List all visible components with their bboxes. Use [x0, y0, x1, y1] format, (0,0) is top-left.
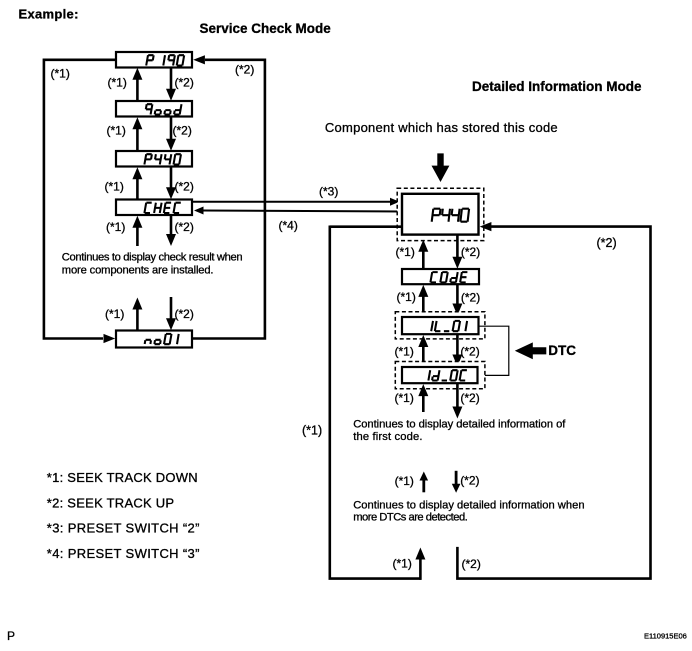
- arrow up below IdDC (*1): [422, 395, 425, 412]
- wire DTC bracket: [477, 326, 509, 375]
- svg-text:(*2): (*2): [460, 391, 479, 405]
- arrow up bottom-left (*1): [419, 559, 422, 580]
- svg-text:Example:: Example:: [19, 6, 79, 21]
- svg-text:the first code.: the first code.: [353, 431, 422, 443]
- arrow up IL01-IdDC (*1): [422, 346, 425, 367]
- arrow up P440-COdE (*1): [422, 251, 425, 269]
- svg-text:(*3): (*3): [319, 185, 338, 199]
- block arrow down: [432, 153, 450, 182]
- arrow up middle free (*1): [422, 480, 425, 493]
- arrow down below CHEC (*2): [170, 215, 173, 235]
- arrow up good-P440 (*1): [136, 128, 139, 151]
- svg-text:*2: SEEK TRACK UP: *2: SEEK TRACK UP: [47, 495, 175, 510]
- wire big box bottom-right: [457, 227, 650, 579]
- svg-text:(*2): (*2): [461, 245, 480, 259]
- svg-text:(*2): (*2): [175, 220, 194, 234]
- arrow down below IdDC (*2): [456, 383, 459, 407]
- svg-text:*3: PRESET SWITCH “2”: *3: PRESET SWITCH “2”: [47, 521, 200, 536]
- svg-text:(*1): (*1): [51, 67, 70, 81]
- arrow up COdE-IL01 (*1): [422, 296, 425, 312]
- svg-text:(*1): (*1): [395, 345, 414, 359]
- svg-text:Component which has stored thi: Component which has stored this code: [325, 120, 558, 135]
- svg-text:Detailed Information Mode: Detailed Information Mode: [472, 79, 642, 94]
- wire left loop (*1): [44, 60, 116, 339]
- svg-text:(*2): (*2): [175, 307, 194, 321]
- svg-text:Continues to display check res: Continues to display check result when: [62, 252, 243, 264]
- display box no01: [116, 331, 192, 348]
- dashed box around IL_01: [395, 312, 485, 339]
- arrowhead right loop into P190: [193, 55, 205, 64]
- svg-text:(*1): (*1): [396, 245, 415, 259]
- arrowhead big box into P440 right: [480, 222, 492, 231]
- svg-text:*1: SEEK TRACK DOWN: *1: SEEK TRACK DOWN: [47, 470, 198, 485]
- lcd text no01: [145, 334, 179, 344]
- svg-text:(*1): (*1): [395, 474, 414, 488]
- svg-text:(*2): (*2): [175, 179, 194, 193]
- display box Id_DC: [402, 367, 478, 383]
- svg-text:E110915E06: E110915E06: [644, 632, 687, 641]
- svg-text:Service Check Mode: Service Check Mode: [200, 21, 332, 36]
- svg-text:(*2): (*2): [460, 474, 479, 488]
- arrow down COdE-IL01 (*2): [456, 284, 459, 304]
- wire *4 P440 to CHEC: [202, 210, 402, 213]
- svg-text:Continues to display detailed: Continues to display detailed informatio…: [353, 499, 584, 511]
- arrow down good-P440 (*2): [170, 117, 173, 140]
- svg-text:(*4): (*4): [279, 219, 298, 233]
- display box IL_01: [402, 317, 479, 334]
- svg-text:Continues to display detailed: Continues to display detailed informatio…: [353, 419, 566, 431]
- svg-text:(*1): (*1): [105, 307, 124, 321]
- lcd text IL_01: [431, 321, 467, 331]
- lcd text P440 left: [144, 154, 181, 164]
- wire *3 CHEC to P440: [192, 201, 391, 203]
- lcd text COdE: [430, 272, 467, 282]
- svg-text:(*1): (*1): [393, 557, 412, 571]
- svg-text:(*2): (*2): [175, 75, 194, 89]
- arrow up P440-CHEC (*1): [136, 178, 139, 199]
- svg-text:(*2): (*2): [235, 63, 254, 77]
- svg-text:(*1): (*1): [302, 424, 322, 438]
- svg-text:(*1): (*1): [108, 75, 127, 89]
- arrow down P190-good (*2): [170, 68, 173, 90]
- svg-text:more components are installed.: more components are installed.: [62, 264, 214, 276]
- svg-text:more DTCs are detected.: more DTCs are detected.: [353, 512, 467, 524]
- arrowhead left loop into no01: [104, 334, 116, 343]
- dashed box around Id_DC: [395, 362, 485, 389]
- svg-text:(*1): (*1): [395, 391, 414, 405]
- svg-text:*4: PRESET SWITCH “3”: *4: PRESET SWITCH “3”: [47, 546, 200, 561]
- lcd text good: [146, 104, 182, 114]
- svg-text:DTC: DTC: [548, 343, 576, 358]
- arrow up below CHEC (*1): [136, 227, 139, 246]
- lcd text P440 right: [432, 209, 469, 222]
- display box CHEC: [116, 200, 192, 216]
- display box COdE: [402, 269, 479, 284]
- lcd text CHEC: [144, 203, 180, 213]
- svg-text:(*1): (*1): [107, 123, 126, 137]
- arrow up P190-good (*1): [136, 79, 139, 101]
- lcd text Id_DC: [428, 370, 467, 380]
- svg-text:(*1): (*1): [105, 179, 124, 193]
- svg-text:(*2): (*2): [173, 123, 192, 137]
- arrow down P440-CHEC (*2): [170, 167, 173, 189]
- display box P440 right: [402, 194, 479, 235]
- svg-text:(*2): (*2): [597, 236, 617, 250]
- svg-text:(*1): (*1): [397, 290, 416, 304]
- svg-text:P: P: [7, 629, 15, 643]
- arrow up above no01 (*1): [136, 309, 139, 331]
- arrow down above no01 (*2): [170, 297, 173, 319]
- dashed box around P440: [397, 188, 484, 240]
- wire big box outline: [330, 226, 422, 579]
- arrow down middle free (*2): [455, 471, 458, 485]
- display box P190: [116, 52, 192, 68]
- display box good: [116, 101, 192, 117]
- svg-text:(*2): (*2): [462, 557, 481, 571]
- arrow down IL01-IdDC (*2): [456, 334, 459, 355]
- lcd text P190: [146, 55, 184, 65]
- wire right loop (*2): [192, 60, 265, 339]
- arrow down P440-COdE (*2): [456, 235, 459, 258]
- svg-text:(*2): (*2): [461, 291, 480, 305]
- wire big box top-left: [330, 225, 402, 228]
- svg-text:(*2): (*2): [460, 345, 479, 359]
- block arrow DTC: [515, 342, 547, 359]
- display box P440: [116, 151, 192, 167]
- svg-text:(*1): (*1): [106, 220, 125, 234]
